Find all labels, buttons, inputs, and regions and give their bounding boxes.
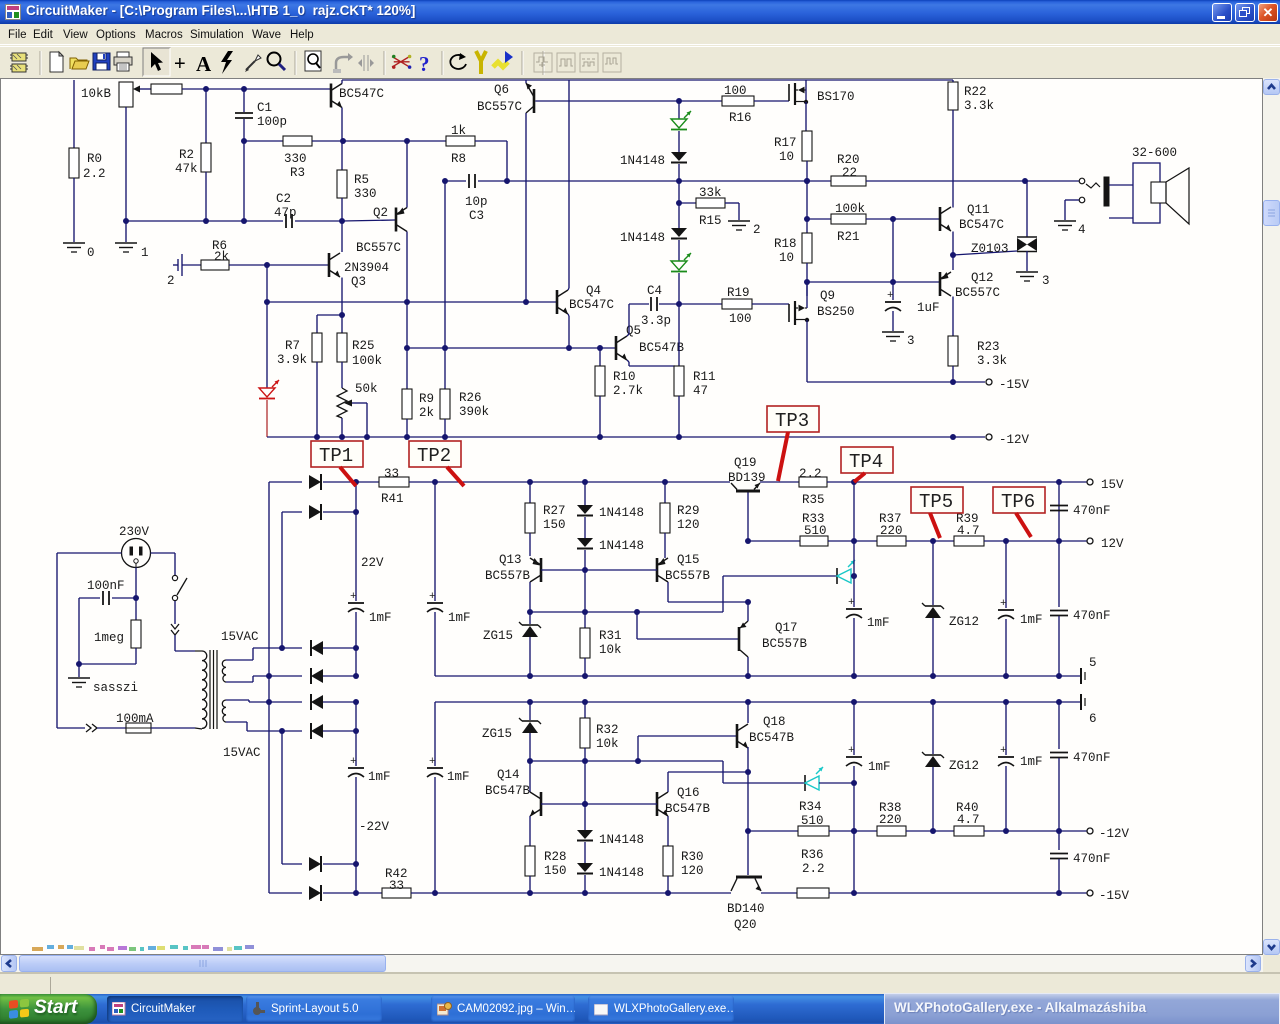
svg-text:Q12: Q12 <box>971 271 994 285</box>
svg-text:BC557C: BC557C <box>477 100 522 114</box>
svg-text:Q15: Q15 <box>677 553 700 567</box>
svg-text:10p: 10p <box>465 195 488 209</box>
svg-text:+: + <box>1000 598 1007 610</box>
svg-text:TP3: TP3 <box>775 410 809 432</box>
svg-text:1N4148: 1N4148 <box>599 539 644 553</box>
svg-text:BC547C: BC547C <box>959 218 1004 232</box>
svg-text:-22V: -22V <box>359 820 390 834</box>
svg-text:R3: R3 <box>290 166 305 180</box>
svg-text:1meg: 1meg <box>94 631 124 645</box>
svg-text:TP1: TP1 <box>319 445 353 467</box>
svg-text:R41: R41 <box>381 492 404 506</box>
svg-text:+: + <box>848 745 855 757</box>
svg-text:1N4148: 1N4148 <box>620 154 665 168</box>
svg-text:10k: 10k <box>599 643 622 657</box>
svg-text:R26: R26 <box>459 391 482 405</box>
svg-text:Q11: Q11 <box>967 203 990 217</box>
svg-text:R9: R9 <box>419 392 434 406</box>
svg-text:R16: R16 <box>729 111 752 125</box>
svg-text:BC557C: BC557C <box>356 241 401 255</box>
svg-text:R35: R35 <box>802 493 825 507</box>
svg-text:10: 10 <box>779 251 794 265</box>
svg-text:R19: R19 <box>727 286 750 300</box>
svg-text:BC547B: BC547B <box>639 341 685 355</box>
svg-text:A: A <box>196 52 212 76</box>
svg-text:R28: R28 <box>544 850 567 864</box>
svg-text:5: 5 <box>1089 656 1097 670</box>
svg-text:2.2: 2.2 <box>83 167 106 181</box>
svg-text:BC557B: BC557B <box>762 637 808 651</box>
svg-text:Q9: Q9 <box>820 289 835 303</box>
svg-text:50k: 50k <box>355 382 378 396</box>
svg-text:15VAC: 15VAC <box>221 630 259 644</box>
svg-text:R2: R2 <box>179 148 194 162</box>
svg-text:Q13: Q13 <box>499 553 522 567</box>
svg-text:470nF: 470nF <box>1073 609 1111 623</box>
svg-text:1N4148: 1N4148 <box>599 866 644 880</box>
svg-text:sasszi: sasszi <box>93 681 138 695</box>
svg-text:R20: R20 <box>837 153 860 167</box>
svg-text:R25: R25 <box>352 339 375 353</box>
svg-text:R10: R10 <box>613 370 636 384</box>
svg-text:R15: R15 <box>699 214 722 228</box>
svg-text:1mF: 1mF <box>448 611 471 625</box>
svg-text:Q16: Q16 <box>677 786 700 800</box>
svg-text:C3: C3 <box>469 209 484 223</box>
svg-text:Z0103: Z0103 <box>971 242 1009 256</box>
svg-text:R32: R32 <box>596 723 619 737</box>
svg-text:BS170: BS170 <box>817 90 855 104</box>
svg-text:C4: C4 <box>647 284 662 298</box>
svg-text:33: 33 <box>384 467 399 481</box>
svg-text:BC557B: BC557B <box>665 569 711 583</box>
svg-text:R18: R18 <box>774 237 797 251</box>
svg-text:1mF: 1mF <box>369 611 392 625</box>
svg-text:3: 3 <box>907 334 915 348</box>
svg-text:BC547C: BC547C <box>569 298 614 312</box>
svg-text:120: 120 <box>677 518 700 532</box>
svg-text:R8: R8 <box>451 152 466 166</box>
svg-text:Q14: Q14 <box>497 768 520 782</box>
svg-text:150: 150 <box>543 518 566 532</box>
svg-text:330: 330 <box>354 187 377 201</box>
svg-text:150: 150 <box>544 864 567 878</box>
svg-text:220: 220 <box>880 524 903 538</box>
svg-text:6: 6 <box>1089 712 1097 726</box>
svg-text:0: 0 <box>87 246 95 260</box>
svg-text:1uF: 1uF <box>917 301 940 315</box>
svg-text:BC547C: BC547C <box>339 87 384 101</box>
svg-text:22V: 22V <box>361 556 384 570</box>
svg-text:-15V: -15V <box>1099 889 1130 903</box>
svg-text:Q6: Q6 <box>494 83 509 97</box>
svg-text:BC547B: BC547B <box>665 802 711 816</box>
svg-text:1: 1 <box>141 246 149 260</box>
svg-text:220: 220 <box>879 813 902 827</box>
svg-text:230V: 230V <box>119 525 150 539</box>
svg-text:1N4148: 1N4148 <box>599 506 644 520</box>
svg-text:3.9k: 3.9k <box>277 353 307 367</box>
svg-text:100nF: 100nF <box>87 579 125 593</box>
svg-text:BC547B: BC547B <box>485 784 531 798</box>
svg-text:1N4148: 1N4148 <box>620 231 665 245</box>
svg-text:47p: 47p <box>274 206 297 220</box>
svg-text:33k: 33k <box>699 186 722 200</box>
svg-text:1mF: 1mF <box>867 616 890 630</box>
svg-text:C2: C2 <box>276 192 291 206</box>
svg-text:Q19: Q19 <box>734 456 757 470</box>
svg-text:1mF: 1mF <box>1020 613 1043 627</box>
svg-text:100mA: 100mA <box>116 712 154 726</box>
svg-text:120: 120 <box>681 864 704 878</box>
svg-text:R17: R17 <box>774 136 797 150</box>
svg-text:Q4: Q4 <box>586 284 601 298</box>
svg-text:470nF: 470nF <box>1073 852 1111 866</box>
svg-text:ZG12: ZG12 <box>949 759 979 773</box>
svg-text:-12V: -12V <box>999 433 1030 447</box>
svg-text:10k: 10k <box>596 737 619 751</box>
svg-text:R34: R34 <box>799 800 822 814</box>
svg-text:R21: R21 <box>837 230 860 244</box>
svg-text:BC557B: BC557B <box>485 569 531 583</box>
svg-text:15V: 15V <box>1101 478 1124 492</box>
svg-text:R7: R7 <box>285 339 300 353</box>
svg-text:1mF: 1mF <box>1020 755 1043 769</box>
svg-text:C1: C1 <box>257 101 272 115</box>
svg-text:-15V: -15V <box>999 378 1030 392</box>
svg-text:ZG15: ZG15 <box>482 727 512 741</box>
svg-text:10kB: 10kB <box>81 87 112 101</box>
svg-text:1k: 1k <box>451 124 466 138</box>
svg-text:1mF: 1mF <box>368 770 391 784</box>
svg-text:-12V: -12V <box>1099 827 1130 841</box>
svg-text:100p: 100p <box>257 115 287 129</box>
svg-text:4.7: 4.7 <box>957 524 980 538</box>
svg-text:3.3p: 3.3p <box>641 314 671 328</box>
svg-text:4.7: 4.7 <box>957 813 980 827</box>
svg-text:2.2: 2.2 <box>802 862 825 876</box>
svg-text:2k: 2k <box>214 250 229 264</box>
svg-text:R27: R27 <box>543 504 566 518</box>
svg-text:470nF: 470nF <box>1073 751 1111 765</box>
svg-text:TP4: TP4 <box>849 451 883 473</box>
svg-text:2k: 2k <box>419 406 434 420</box>
svg-text:+: + <box>848 597 855 609</box>
svg-text:TP6: TP6 <box>1001 491 1035 513</box>
svg-text:ZG12: ZG12 <box>949 615 979 629</box>
svg-text:Q3: Q3 <box>351 275 366 289</box>
svg-text:22: 22 <box>842 166 857 180</box>
svg-text:+: + <box>429 756 436 768</box>
svg-text:1mF: 1mF <box>447 770 470 784</box>
svg-text:1N4148: 1N4148 <box>599 833 644 847</box>
svg-text:15VAC: 15VAC <box>223 746 261 760</box>
svg-text:4: 4 <box>1078 223 1086 237</box>
svg-text:BS250: BS250 <box>817 305 855 319</box>
svg-text:Q17: Q17 <box>775 621 798 635</box>
svg-text:3.3k: 3.3k <box>964 99 994 113</box>
svg-text:+: + <box>174 53 186 75</box>
svg-text:2.7k: 2.7k <box>613 384 643 398</box>
svg-text:?: ? <box>419 52 430 76</box>
svg-text:100k: 100k <box>352 354 382 368</box>
svg-text:R36: R36 <box>801 848 824 862</box>
svg-text:R5: R5 <box>354 173 369 187</box>
svg-text:R22: R22 <box>964 85 987 99</box>
svg-text:2: 2 <box>753 223 761 237</box>
svg-text:R31: R31 <box>599 629 622 643</box>
svg-text:47: 47 <box>693 384 708 398</box>
svg-text:510: 510 <box>801 814 824 828</box>
svg-text:470nF: 470nF <box>1073 504 1111 518</box>
svg-text:+: + <box>350 756 357 768</box>
svg-text:Q20: Q20 <box>734 918 757 932</box>
svg-text:BC547B: BC547B <box>749 731 795 745</box>
svg-text:R30: R30 <box>681 850 704 864</box>
svg-text:TP2: TP2 <box>417 445 451 467</box>
svg-text:R0: R0 <box>87 152 102 166</box>
svg-text:+: + <box>1000 745 1007 757</box>
svg-text:100k: 100k <box>835 202 865 216</box>
svg-text:12V: 12V <box>1101 537 1124 551</box>
svg-text:ZG15: ZG15 <box>483 629 513 643</box>
svg-text:TP5: TP5 <box>919 491 953 513</box>
svg-text:BC557C: BC557C <box>955 286 1000 300</box>
svg-text:100: 100 <box>729 312 752 326</box>
svg-text:R29: R29 <box>677 504 700 518</box>
svg-text:R23: R23 <box>977 340 1000 354</box>
svg-text:Q5: Q5 <box>626 324 641 338</box>
svg-text:32-600: 32-600 <box>1132 146 1177 160</box>
svg-text:510: 510 <box>804 524 827 538</box>
svg-text:2N3904: 2N3904 <box>344 261 389 275</box>
svg-text:2.2: 2.2 <box>799 467 822 481</box>
svg-text:3: 3 <box>1042 274 1050 288</box>
svg-text:10: 10 <box>779 150 794 164</box>
svg-text:+: + <box>350 591 357 603</box>
svg-text:+: + <box>429 591 436 603</box>
svg-text:33: 33 <box>389 879 404 893</box>
svg-text:BD139: BD139 <box>728 471 766 485</box>
svg-text:Q2: Q2 <box>373 206 388 220</box>
svg-text:100: 100 <box>724 84 747 98</box>
svg-text:1mF: 1mF <box>868 760 891 774</box>
svg-text:+: + <box>887 290 894 302</box>
svg-text:330: 330 <box>284 152 307 166</box>
svg-text:R11: R11 <box>693 370 716 384</box>
svg-text:47k: 47k <box>175 162 198 176</box>
svg-text:Q18: Q18 <box>763 715 786 729</box>
svg-text:3.3k: 3.3k <box>977 354 1007 368</box>
svg-text:BD140: BD140 <box>727 902 765 916</box>
svg-text:390k: 390k <box>459 405 489 419</box>
svg-text:2: 2 <box>167 274 175 288</box>
